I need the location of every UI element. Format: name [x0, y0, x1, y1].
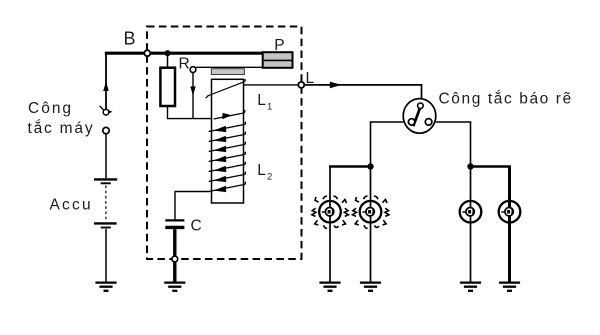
junction (right branch)	[467, 163, 473, 169]
moving contact pad (grey)	[211, 69, 244, 75]
coil core (bobbin outline)	[212, 79, 244, 203]
ground (lamp 3)	[460, 283, 481, 291]
svg-text:Công tắc báo rẽ: Công tắc báo rẽ	[439, 91, 573, 108]
wire: node to ground (thick)	[173, 262, 176, 282]
current arrow right on L wire	[330, 82, 342, 89]
svg-text:Accu: Accu	[50, 196, 93, 213]
wire: node L to turn-signal switch	[304, 85, 421, 99]
armature bar (thick top contact arm)	[150, 52, 263, 55]
svg-text:R: R	[179, 56, 190, 73]
wire: coil to node L	[244, 84, 299, 86]
coil L2 winding 5	[209, 162, 246, 172]
svg-text:1: 1	[267, 101, 272, 112]
flash rays lamp 1	[312, 196, 349, 228]
armature bar bottom edge	[196, 66, 264, 68]
wire: resistor bottom to coil entry	[168, 106, 214, 119]
junction dot (B bus to resistor)	[164, 50, 170, 56]
flash rays lamp 2	[352, 196, 389, 228]
svg-text:2: 2	[267, 171, 272, 182]
contact block P	[263, 52, 293, 68]
coil L1 top winding	[206, 79, 246, 98]
flasher relay enclosure (dashed box)	[147, 27, 302, 260]
wire: right branch horizontal	[471, 165, 510, 167]
coil L2 winding 3	[209, 142, 246, 152]
ignition switch (Công tắc máy)	[100, 106, 113, 134]
wire: switch right contact to right lamp branch	[436, 122, 471, 165]
current arrow down on R wire	[190, 86, 195, 95]
current arrow up on feed wire	[103, 82, 109, 92]
resistor	[160, 68, 175, 106]
node L	[298, 82, 304, 88]
node B	[144, 50, 150, 56]
coil L2 winding 7	[209, 182, 246, 192]
wire: switch to battery	[105, 134, 107, 178]
wire: down to lamp 4 and ground (thick)	[508, 165, 511, 281]
wire: battery feed to node B (top left corner run)	[105, 52, 107, 110]
svg-text:L: L	[257, 92, 266, 109]
wire: coil bottom to capacitor	[175, 192, 210, 220]
turn signal switch (Công tắc báo rẽ)	[403, 99, 436, 134]
terminal R (node circle)	[190, 67, 196, 73]
wire: bus to resistor top	[167, 54, 169, 68]
coil L2 winding 4	[209, 152, 246, 162]
wire: left branch horizontal	[329, 165, 371, 167]
svg-text:P: P	[274, 37, 284, 54]
ground (lamp 2)	[360, 283, 381, 291]
junction (left branch)	[367, 163, 373, 169]
ground (battery)	[95, 283, 116, 291]
lamp 1 (front turn lamp, flashing)	[319, 201, 341, 223]
battery Accu	[94, 179, 117, 227]
svg-text:Công: Công	[28, 100, 73, 117]
wire: junction down to lamp 2 and ground	[370, 167, 372, 282]
wire: switch left contact to left lamp branch	[371, 122, 404, 165]
coil L2 winding 1	[209, 122, 246, 132]
coil winding entry (arrow right)	[214, 110, 245, 119]
lamp 2 (rear turn lamp, flashing)	[360, 201, 382, 223]
lamp 3 (front lamp, off)	[460, 201, 482, 223]
ground (lamp 1)	[319, 283, 340, 291]
svg-text:B: B	[124, 29, 136, 49]
svg-text:L: L	[257, 162, 266, 179]
coil L2 winding 2	[209, 132, 246, 142]
capacitor C	[165, 220, 184, 227]
coil L2 winding 6	[209, 172, 246, 182]
ground (lamp 4)	[499, 283, 520, 291]
wire: down to lamp 1 and ground	[329, 165, 331, 281]
ground (capacitor)	[164, 283, 185, 291]
wire: junction down to lamp 3 and ground	[470, 167, 472, 282]
wire: battery to ground	[105, 229, 107, 282]
lamp 4 (rear lamp, off)	[499, 201, 521, 223]
wire: capacitor to ground (thick)	[173, 229, 176, 256]
wire: R terminal down to coil entry	[192, 73, 194, 119]
svg-text:tắc máy: tắc máy	[28, 120, 95, 137]
node on enclosure bottom edge	[172, 256, 178, 262]
svg-text:C: C	[191, 218, 202, 235]
